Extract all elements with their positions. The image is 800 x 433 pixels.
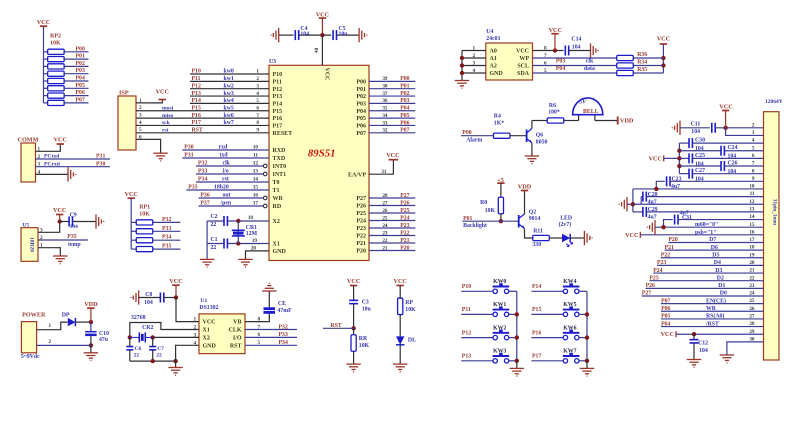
svg-text:Q6: Q6 [536, 133, 544, 139]
svg-text:VDD: VDD [84, 301, 98, 308]
svg-text:104: 104 [728, 154, 737, 160]
svg-text:P32: P32 [162, 217, 171, 223]
svg-text:R35: R35 [637, 67, 647, 73]
svg-text:10K: 10K [359, 343, 370, 349]
svg-text:36: 36 [382, 98, 388, 104]
svg-text:5~9Vdc: 5~9Vdc [21, 354, 40, 360]
svg-text:P24: P24 [400, 215, 409, 221]
svg-text:P06: P06 [661, 306, 670, 312]
svg-text:D1: D1 [718, 283, 725, 289]
svg-text:P32: P32 [198, 161, 207, 167]
svg-text:22: 22 [134, 353, 140, 359]
svg-text:X2: X2 [203, 336, 210, 342]
svg-text:P27: P27 [400, 193, 409, 199]
svg-text:31pin_1mm: 31pin_1mm [772, 199, 778, 226]
svg-text:24: 24 [382, 223, 388, 229]
svg-text:R11: R11 [533, 229, 543, 235]
svg-text:104: 104 [691, 129, 700, 135]
svg-text:P14: P14 [273, 102, 283, 108]
svg-text:P26: P26 [646, 283, 655, 289]
svg-text:35: 35 [382, 106, 388, 112]
svg-text:P26: P26 [356, 204, 366, 210]
svg-text:39: 39 [382, 76, 388, 82]
svg-text:C8: C8 [145, 292, 152, 298]
svg-text:D3: D3 [715, 268, 722, 274]
svg-text:WR: WR [273, 196, 284, 202]
svg-text:P33: P33 [162, 226, 171, 232]
svg-text:100*: 100* [548, 109, 560, 115]
svg-text:RESET: RESET [273, 131, 293, 137]
svg-text:22: 22 [211, 245, 217, 251]
svg-text:P04: P04 [76, 76, 85, 82]
svg-text:BELL: BELL [583, 109, 599, 115]
svg-text:104: 104 [699, 348, 708, 354]
svg-text:P30: P30 [184, 145, 193, 151]
svg-text:P00: P00 [356, 79, 366, 85]
svg-text:28: 28 [382, 193, 388, 199]
svg-text:m68="0": m68="0" [695, 222, 718, 228]
svg-text:VCC: VCC [156, 89, 169, 96]
svg-text:P15: P15 [273, 109, 283, 115]
svg-text:2: 2 [49, 339, 52, 345]
svg-text:RP: RP [405, 300, 413, 306]
svg-text:1: 1 [194, 317, 197, 323]
svg-text:P04: P04 [356, 109, 366, 115]
svg-text:PCrxd: PCrxd [44, 161, 61, 167]
svg-text:RXD: RXD [273, 148, 287, 154]
svg-text:C14: C14 [571, 36, 581, 42]
svg-text:25: 25 [382, 215, 388, 221]
svg-text:P04: P04 [400, 106, 409, 112]
svg-text:P11: P11 [462, 307, 471, 313]
svg-text:40: 40 [314, 47, 320, 53]
svg-text:kw2: kw2 [224, 83, 234, 89]
svg-text:kw0: kw0 [224, 69, 234, 75]
svg-text:miso: miso [162, 113, 173, 119]
svg-text:6: 6 [256, 105, 259, 111]
svg-text:kw4: kw4 [224, 98, 234, 104]
svg-text:P11: P11 [273, 79, 282, 85]
svg-text:2: 2 [256, 76, 259, 82]
svg-text:DP: DP [62, 313, 70, 319]
svg-text:A2: A2 [490, 64, 497, 70]
svg-text:rst: rst [162, 128, 169, 134]
svg-text:P07: P07 [76, 97, 85, 103]
svg-text:RST: RST [330, 323, 341, 329]
svg-text:4u7: 4u7 [648, 215, 657, 221]
svg-text:CLK: CLK [228, 328, 241, 334]
svg-text:P00: P00 [400, 76, 409, 82]
svg-text:C1: C1 [211, 237, 218, 243]
svg-text:C28: C28 [648, 192, 658, 198]
svg-text:P34: P34 [162, 235, 171, 241]
svg-text:VCC: VCC [657, 35, 670, 42]
svg-text:mosi: mosi [162, 105, 174, 111]
svg-text:P12: P12 [192, 83, 201, 89]
svg-text:11: 11 [253, 153, 258, 159]
svg-text:/pen: /pen [220, 201, 232, 207]
svg-text:P10: P10 [462, 284, 471, 290]
svg-text:6: 6 [258, 332, 261, 338]
svg-text:4u7: 4u7 [648, 199, 657, 205]
svg-text:P21: P21 [665, 245, 674, 251]
svg-text:D7: D7 [709, 237, 716, 243]
svg-text:RD: RD [273, 204, 282, 210]
svg-text:Q2: Q2 [529, 209, 537, 215]
svg-text:C9: C9 [70, 213, 77, 219]
svg-text:VCC: VCC [124, 191, 137, 198]
svg-text:INT0: INT0 [273, 164, 287, 170]
svg-text:33: 33 [382, 120, 388, 126]
svg-text:8: 8 [258, 317, 261, 323]
svg-text:22: 22 [382, 238, 388, 244]
svg-text:KW2: KW2 [493, 325, 506, 331]
svg-text:7: 7 [258, 324, 261, 330]
svg-text:D6: D6 [711, 245, 718, 251]
svg-text:X1: X1 [273, 242, 280, 248]
svg-text:P23: P23 [400, 223, 409, 229]
svg-text:104: 104 [300, 31, 309, 37]
svg-text:P12: P12 [462, 330, 471, 336]
svg-text:P24: P24 [653, 268, 662, 274]
svg-text:R36: R36 [637, 52, 647, 58]
svg-text:P24: P24 [356, 219, 366, 225]
svg-text:3: 3 [256, 83, 259, 89]
svg-text:104: 104 [144, 300, 153, 306]
svg-text:R4: R4 [494, 113, 501, 119]
svg-text:38: 38 [382, 84, 388, 90]
svg-text:SDA: SDA [517, 71, 530, 77]
svg-text:SCL: SCL [517, 64, 529, 70]
svg-text:C30: C30 [695, 138, 705, 144]
svg-text:10: 10 [253, 145, 259, 151]
svg-text:P12: P12 [273, 87, 283, 93]
svg-text:26: 26 [382, 208, 388, 214]
svg-text:21: 21 [382, 245, 388, 251]
svg-text:LED: LED [560, 215, 572, 221]
svg-text:P04: P04 [661, 321, 670, 327]
svg-text:4: 4 [256, 91, 259, 97]
svg-text:1: 1 [49, 323, 52, 329]
svg-text:EA/VP: EA/VP [348, 172, 366, 178]
svg-text:P03: P03 [556, 59, 565, 65]
svg-text:12M: 12M [246, 231, 258, 237]
svg-text:KW0: KW0 [493, 279, 506, 285]
svg-text:27: 27 [382, 200, 388, 206]
svg-text:T0: T0 [273, 180, 280, 186]
svg-text:P16: P16 [192, 113, 201, 119]
svg-text:P14: P14 [532, 284, 541, 290]
svg-text:P01: P01 [356, 87, 366, 93]
svg-text:EN(CE): EN(CE) [706, 297, 726, 304]
svg-text:P00: P00 [462, 130, 471, 136]
svg-text:104: 104 [572, 44, 581, 50]
svg-text:P25: P25 [400, 208, 409, 214]
svg-text:7: 7 [256, 113, 259, 119]
svg-text:P02: P02 [400, 91, 409, 97]
svg-text:23: 23 [382, 230, 388, 236]
svg-text:P32: P32 [279, 324, 288, 330]
svg-text:U4: U4 [486, 29, 493, 35]
svg-text:R6: R6 [549, 103, 556, 109]
svg-text:P22: P22 [356, 234, 366, 240]
svg-text:out: out [223, 193, 231, 199]
svg-text:P22: P22 [400, 230, 409, 236]
svg-text:P13: P13 [273, 94, 283, 100]
svg-text:P05: P05 [356, 116, 366, 122]
svg-text:330: 330 [532, 242, 541, 248]
svg-text:P17: P17 [192, 120, 201, 126]
svg-text:89S51: 89S51 [308, 148, 336, 160]
svg-text:temp: temp [68, 242, 81, 248]
svg-text:X1: X1 [203, 328, 210, 334]
svg-text:P00: P00 [76, 46, 85, 52]
svg-text:C6: C6 [135, 346, 142, 352]
svg-text:12864Y: 12864Y [765, 99, 783, 105]
svg-text:10K: 10K [485, 208, 496, 214]
svg-text:VCC: VCC [661, 331, 674, 338]
svg-text:VCC: VCC [549, 27, 562, 34]
svg-text:24c01: 24c01 [486, 36, 500, 42]
svg-text:104: 104 [70, 224, 79, 230]
svg-text:10u: 10u [339, 31, 349, 37]
svg-text:P35: P35 [67, 234, 76, 240]
svg-text:P10: P10 [273, 72, 283, 78]
svg-text:P13: P13 [192, 91, 201, 97]
svg-text:RS(A0): RS(A0) [706, 313, 724, 320]
svg-text:data: data [584, 66, 595, 72]
svg-text:P17: P17 [273, 124, 283, 130]
svg-text:P22: P22 [661, 252, 670, 258]
svg-text:14: 14 [253, 177, 259, 183]
svg-text:VDD: VDD [620, 117, 634, 124]
svg-text:I/O: I/O [233, 336, 242, 342]
svg-text:P27: P27 [356, 196, 366, 202]
svg-text:C27: C27 [695, 168, 705, 174]
svg-text:C25: C25 [695, 153, 705, 159]
svg-text:GND: GND [203, 343, 217, 349]
svg-text:P14: P14 [192, 98, 201, 104]
svg-text:txd: txd [220, 153, 229, 159]
svg-text:9: 9 [256, 128, 259, 134]
svg-text:Alarm: Alarm [466, 138, 482, 144]
svg-text:kw5: kw5 [224, 105, 234, 111]
svg-text:DL: DL [408, 338, 416, 344]
svg-text:P33: P33 [198, 169, 207, 175]
svg-text:VCC: VCC [37, 19, 50, 26]
svg-text:P21: P21 [356, 241, 366, 247]
svg-text:34: 34 [382, 113, 388, 119]
svg-text:31: 31 [381, 169, 387, 175]
svg-text:P16: P16 [532, 330, 541, 336]
svg-text:8050: 8050 [536, 140, 548, 146]
svg-text:P34: P34 [279, 340, 288, 346]
svg-text:P02: P02 [356, 94, 366, 100]
svg-text:CE: CE [278, 301, 286, 307]
svg-text:10K: 10K [139, 211, 150, 217]
svg-text:17: 17 [253, 201, 259, 207]
svg-text:DS1302: DS1302 [199, 305, 218, 311]
svg-text:P04: P04 [556, 66, 565, 72]
svg-text:9014: 9014 [529, 216, 541, 222]
svg-text:18b20: 18b20 [214, 185, 229, 191]
svg-text:GND: GND [273, 249, 287, 255]
svg-text:VCC: VCC [719, 104, 732, 111]
svg-text:RST: RST [192, 128, 203, 134]
svg-text:15: 15 [253, 185, 259, 191]
svg-text:P03: P03 [400, 98, 409, 104]
svg-text:VCC: VCC [386, 152, 399, 159]
svg-text:U1: U1 [201, 298, 208, 304]
svg-text:VCC: VCC [203, 320, 216, 326]
svg-text:CR2: CR2 [142, 325, 153, 331]
svg-text:P30: P30 [96, 161, 105, 167]
svg-text:sck: sck [162, 120, 171, 126]
svg-text:VCC: VCC [169, 278, 182, 285]
svg-text:P25: P25 [649, 275, 658, 281]
svg-text:P03: P03 [356, 102, 366, 108]
svg-text:T1: T1 [273, 188, 280, 194]
svg-text:U3: U3 [269, 59, 276, 65]
svg-text:5V: 5V [579, 100, 587, 106]
svg-text:C11: C11 [691, 121, 701, 127]
svg-text:22: 22 [211, 222, 217, 228]
svg-text:8: 8 [256, 120, 259, 126]
svg-text:104: 104 [728, 169, 737, 175]
svg-text:TXD: TXD [273, 156, 286, 162]
svg-text:VCC: VCC [625, 232, 638, 239]
svg-text:C12: C12 [698, 341, 708, 347]
svg-text:KW4: KW4 [563, 279, 576, 285]
svg-text:P25: P25 [356, 211, 366, 217]
svg-text:KW6: KW6 [563, 325, 576, 331]
svg-text:37: 37 [382, 91, 388, 97]
svg-text:P02: P02 [76, 61, 85, 67]
svg-text:P31: P31 [184, 153, 193, 159]
svg-text:16: 16 [253, 193, 259, 199]
svg-text:KW3: KW3 [493, 349, 506, 355]
svg-text:C24: C24 [728, 145, 738, 151]
svg-text:WR: WR [706, 306, 717, 312]
svg-text:C2: C2 [211, 214, 218, 220]
svg-text:P11: P11 [192, 76, 201, 82]
svg-text:C23: C23 [672, 177, 682, 183]
svg-text:R0: R0 [480, 200, 487, 206]
svg-text:P15: P15 [192, 105, 201, 111]
svg-text:/RST: /RST [705, 321, 719, 327]
svg-text:10u: 10u [362, 306, 372, 312]
svg-text:47u: 47u [99, 337, 109, 343]
svg-text:5: 5 [256, 98, 259, 104]
svg-text:32: 32 [382, 128, 388, 134]
svg-text:P33: P33 [279, 332, 288, 338]
svg-text:10K: 10K [50, 41, 61, 47]
svg-text:P37: P37 [200, 201, 209, 207]
svg-text:32768: 32768 [131, 315, 146, 321]
svg-text:WP: WP [519, 56, 529, 62]
svg-text:P27: P27 [642, 291, 651, 297]
svg-text:C7: C7 [157, 346, 164, 352]
svg-text:P07: P07 [356, 131, 366, 137]
svg-text:P06: P06 [356, 124, 366, 130]
svg-text:P05: P05 [76, 83, 85, 89]
svg-text:P31: P31 [96, 154, 105, 160]
svg-text:P05: P05 [400, 113, 409, 119]
svg-text:A1: A1 [490, 56, 497, 62]
svg-text:kw3: kw3 [224, 91, 234, 97]
svg-text:VCC: VCC [649, 155, 662, 162]
svg-text:P07: P07 [661, 298, 670, 304]
svg-text:(2v7): (2v7) [559, 221, 572, 228]
svg-text:P35: P35 [162, 244, 171, 250]
svg-text:kw7: kw7 [224, 120, 234, 126]
svg-text:P10: P10 [192, 69, 201, 75]
svg-text:P15: P15 [532, 307, 541, 313]
svg-text:1: 1 [256, 69, 259, 75]
svg-text:P20: P20 [356, 249, 366, 255]
svg-text:POWER: POWER [22, 311, 46, 318]
svg-text:P06: P06 [76, 90, 85, 96]
svg-text:P21: P21 [400, 238, 409, 244]
svg-text:KW1: KW1 [493, 302, 506, 308]
svg-text:D5: D5 [712, 252, 719, 258]
svg-text:P03: P03 [76, 68, 85, 74]
svg-text:rxd: rxd [219, 145, 228, 151]
svg-text:VB: VB [233, 320, 241, 326]
svg-text:VCC: VCC [516, 49, 529, 55]
svg-text:12: 12 [253, 161, 259, 167]
svg-text:47mF: 47mF [278, 308, 293, 314]
svg-text:P05: P05 [661, 314, 670, 320]
svg-text:13: 13 [253, 169, 259, 175]
svg-text:A0: A0 [490, 49, 497, 55]
svg-text:P13: P13 [462, 354, 471, 360]
svg-text:Backlight: Backlight [463, 223, 487, 229]
svg-text:VCC: VCC [324, 68, 330, 81]
svg-text:C29: C29 [648, 207, 658, 213]
svg-text:VDD: VDD [518, 184, 532, 191]
svg-text:P36: P36 [200, 193, 209, 199]
svg-text:P17: P17 [532, 354, 541, 360]
svg-text:5: 5 [258, 340, 261, 346]
svg-text:psb="1": psb="1" [695, 230, 716, 236]
svg-text:22: 22 [156, 353, 162, 359]
svg-text:P07: P07 [400, 128, 409, 134]
svg-text:19: 19 [252, 238, 258, 244]
svg-text:i/o: i/o [223, 169, 229, 175]
svg-text:RP1: RP1 [139, 204, 150, 210]
svg-text:P34: P34 [198, 177, 207, 183]
svg-text:GND: GND [490, 71, 504, 77]
svg-text:18B20: 18B20 [29, 237, 35, 252]
svg-text:KW7: KW7 [563, 349, 576, 355]
svg-text:kw1: kw1 [224, 76, 234, 82]
svg-text:VCC: VCC [393, 278, 406, 285]
svg-text:P06: P06 [400, 120, 409, 126]
svg-text:R34: R34 [637, 60, 647, 66]
svg-text:RST: RST [230, 343, 242, 349]
svg-text:10K: 10K [405, 307, 416, 313]
svg-text:C31: C31 [682, 215, 692, 221]
svg-text:C26: C26 [728, 161, 738, 167]
svg-text:X2: X2 [273, 219, 280, 225]
svg-text:P20: P20 [400, 245, 409, 251]
svg-text:P20: P20 [668, 237, 677, 243]
svg-text:RP2: RP2 [50, 34, 61, 40]
svg-text:KW5: KW5 [563, 302, 576, 308]
svg-text:18: 18 [248, 215, 254, 221]
svg-text:P26: P26 [400, 200, 409, 206]
